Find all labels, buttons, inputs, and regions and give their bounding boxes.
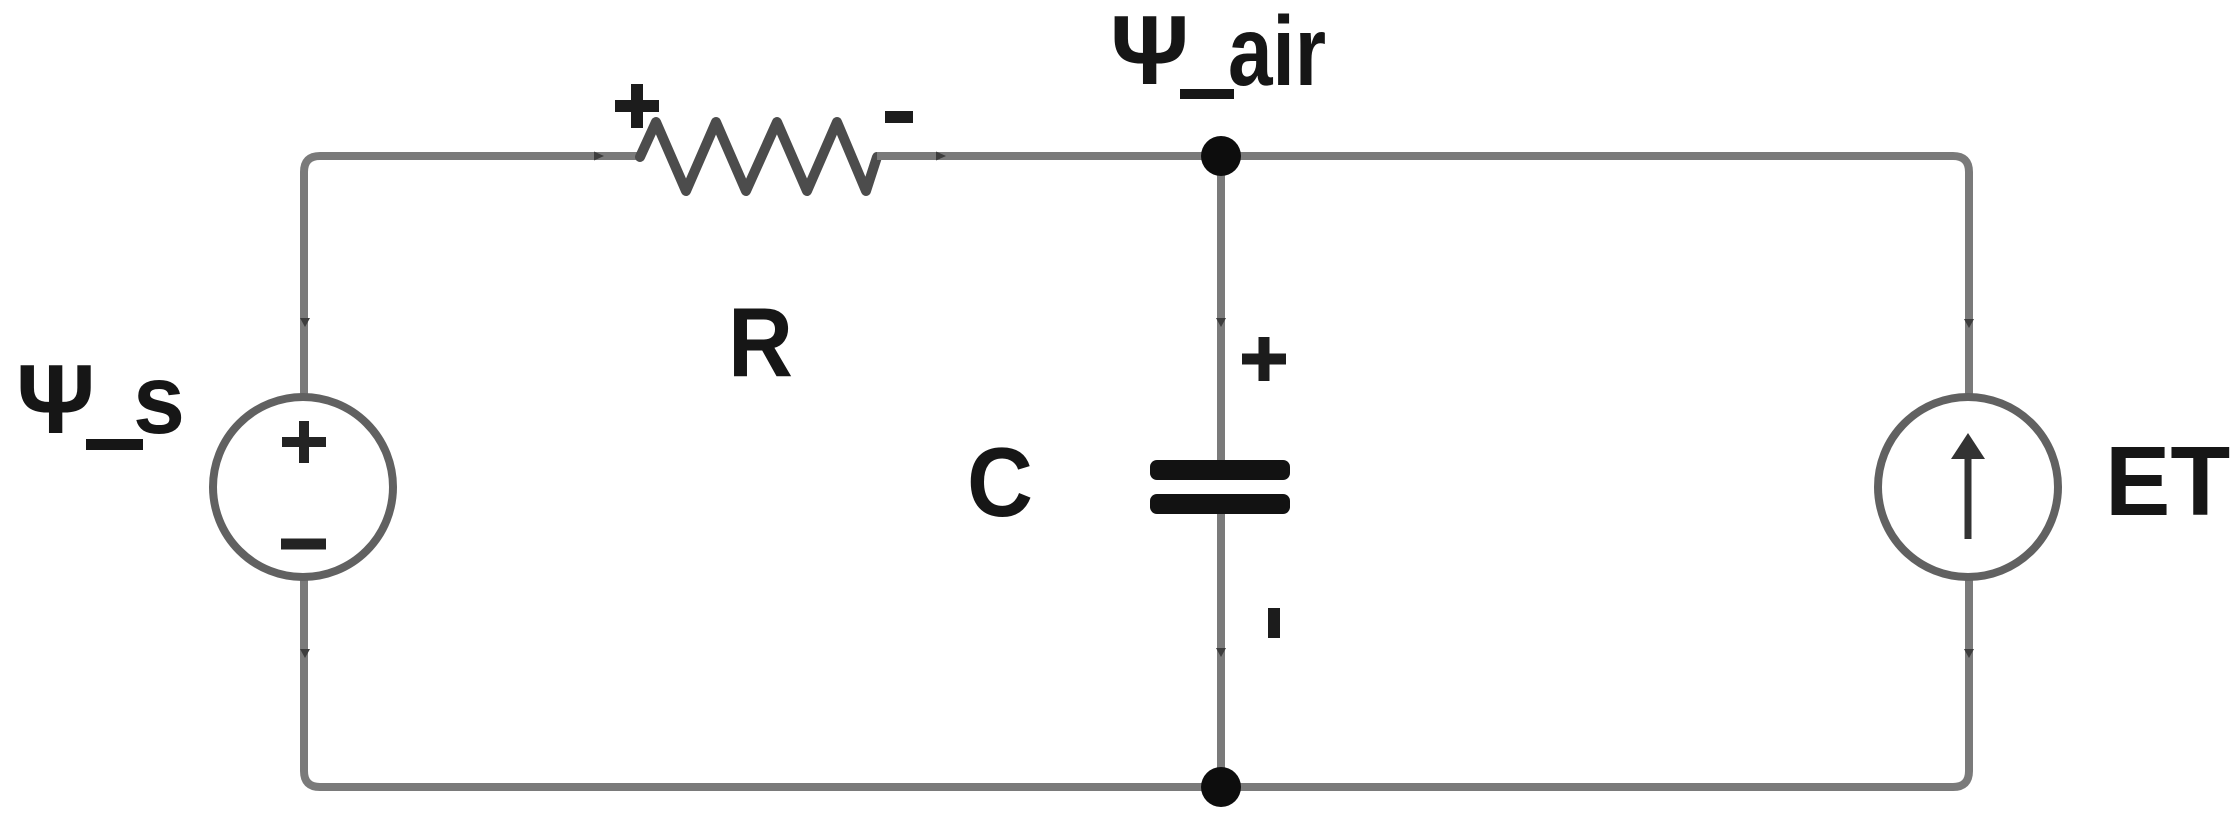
wire: top wire right segment + top-right corner + right vertical upper: [877, 156, 1969, 401]
plus label at capacitor: [1242, 337, 1286, 381]
minus label below capacitor (vertical tick): [1268, 608, 1280, 638]
wire arrow marker right wire upper: [1964, 319, 1974, 328]
svg-text:ET: ET: [2105, 426, 2230, 536]
plus label at resistor left: [615, 84, 659, 128]
arrow inside ET source: [1965, 450, 1972, 539]
current source ET circle: [1878, 397, 2058, 577]
capacitor C bottom plate: [1150, 494, 1290, 514]
capacitor C top plate: [1150, 460, 1290, 480]
wire arrow marker left wire lower: [300, 649, 310, 658]
wire arrow marker right wire lower: [1964, 649, 1974, 658]
voltage source U_s circle: [213, 397, 393, 577]
wire arrow marker top wire left: [594, 152, 604, 161]
wire arrow marker left wire upper: [300, 318, 310, 327]
svg-text:C: C: [967, 427, 1033, 537]
node Psi_air junction dot: [1201, 136, 1241, 176]
svg-text:Ψ: Ψ: [1110, 0, 1189, 105]
wire: middle vertical lower (capacitor to bottom node): [1217, 513, 1225, 787]
svg-text:Ψ: Ψ: [16, 344, 95, 454]
svg-text:s: s: [133, 344, 185, 454]
resistor R: [640, 122, 877, 191]
node bottom junction dot: [1201, 767, 1241, 807]
wire arrow marker middle wire lower: [1216, 648, 1226, 657]
wire: middle vertical upper (node to capacitor): [1217, 156, 1225, 461]
svg-text:R: R: [728, 287, 793, 397]
plus sign inside source: [282, 421, 326, 463]
wire: left vertical upper + top-left corner + top wire left segment: [304, 156, 640, 401]
minus label at resistor right: [885, 111, 913, 123]
svg-text:air: air: [1228, 0, 1326, 106]
minus sign inside source: [281, 539, 326, 550]
wire: bottom loop (left vertical lower + bottom wire + right vertical lower): [304, 573, 1969, 787]
wire arrow marker middle wire upper: [1216, 318, 1226, 327]
wire arrow marker top wire right: [936, 152, 946, 161]
